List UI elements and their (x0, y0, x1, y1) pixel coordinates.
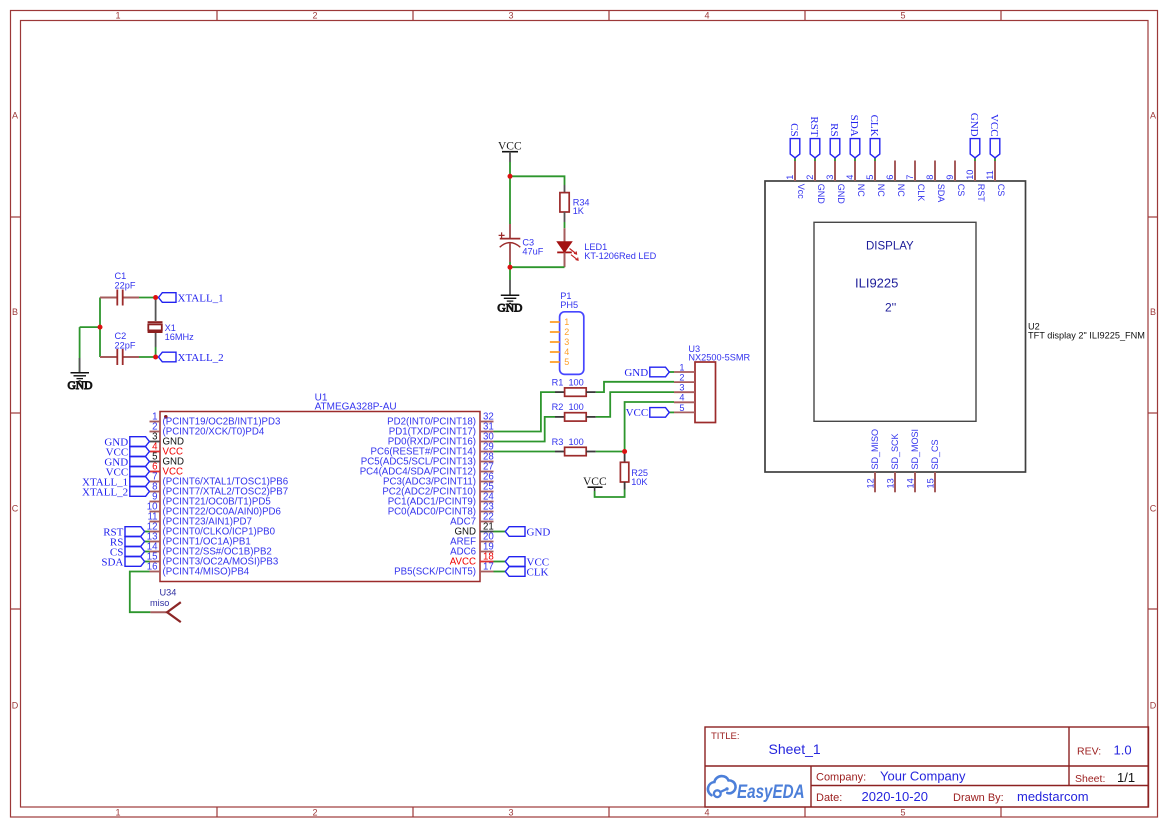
svg-text:VCC: VCC (498, 141, 522, 153)
wire C2 to xtall2 node (139, 356, 156, 358)
wire junction to U3 pin4 (625, 402, 674, 452)
net flag CLK (U1 pin 17) (494, 566, 549, 578)
svg-text:CS: CS (788, 123, 800, 136)
svg-text:4: 4 (564, 347, 569, 357)
svg-text:SDA: SDA (848, 115, 860, 137)
svg-text:2: 2 (805, 175, 815, 180)
pin 3 U2 (825, 161, 846, 205)
pin 1 U2 (785, 161, 806, 200)
svg-text:2020-10-20: 2020-10-20 (862, 789, 929, 804)
svg-text:CLK: CLK (527, 566, 549, 578)
net flag XTALL_1 (U1 pin 7) (82, 476, 149, 488)
EasyEDA logo (708, 776, 805, 802)
net flag VCC (U2 pin 11) (988, 114, 1000, 161)
pin 16 U1 (147, 562, 250, 578)
net flag XTALL_2 (U1 pin 8) (82, 486, 149, 498)
svg-text:R2 100: R2 100 (552, 402, 584, 412)
net flag VCC (U1 pin 18) (494, 556, 550, 568)
pin 8 U1 (150, 482, 289, 498)
svg-text:medstarcom: medstarcom (1017, 789, 1089, 804)
svg-text:NC: NC (896, 184, 906, 197)
svg-text:TFT display 2" ILI9225_FNM: TFT display 2" ILI9225_FNM (1028, 331, 1145, 341)
junction node xtall2 (153, 355, 158, 360)
pin 31 U1 (389, 422, 494, 438)
capacitor C1 (100, 271, 139, 306)
LED LED1 (557, 228, 656, 267)
svg-text:4: 4 (704, 808, 709, 818)
pin 9 U2 (945, 161, 966, 197)
pin 6 U2 (885, 161, 906, 198)
display module U2 outer box (765, 181, 1026, 472)
svg-text:16MHz: 16MHz (165, 332, 195, 342)
pin 7 U2 (905, 161, 926, 202)
pin 11 U1 (147, 512, 251, 528)
svg-text:CLK: CLK (868, 115, 880, 137)
svg-text:GND: GND (497, 303, 522, 315)
svg-text:SD_SCK: SD_SCK (890, 433, 900, 469)
pin 26 U1 (383, 472, 494, 488)
connector U3 NX2500-5SMR (688, 344, 750, 423)
svg-text:A: A (1150, 111, 1156, 121)
ground (crystal) (68, 358, 93, 392)
svg-text:VCC: VCC (583, 476, 607, 488)
pin 32 U1 (387, 412, 494, 428)
svg-text:1/1: 1/1 (1117, 770, 1135, 785)
pin 5 U1 (150, 452, 185, 468)
svg-text:NC: NC (876, 184, 886, 197)
svg-text:Sheet_1: Sheet_1 (769, 741, 821, 757)
svg-text:4: 4 (679, 393, 684, 403)
svg-text:Sheet:: Sheet: (1075, 773, 1105, 785)
pin 19 U1 (450, 542, 494, 558)
svg-text:XTALL_2: XTALL_2 (82, 486, 128, 498)
svg-text:3: 3 (825, 175, 835, 180)
svg-text:7: 7 (905, 175, 915, 180)
pin 23 U1 (388, 502, 494, 518)
resistor R34 (560, 185, 590, 222)
pin 1 U3 (674, 362, 695, 372)
svg-text:VCC: VCC (626, 407, 649, 419)
resistor R3 (552, 437, 596, 456)
pin 14 U2 (906, 429, 921, 492)
pin 11 U2 (985, 161, 1006, 197)
svg-text:Drawn By:: Drawn By: (953, 792, 1004, 804)
junction node (crystal gnd) (98, 325, 103, 330)
svg-text:RS: RS (828, 123, 840, 136)
svg-text:TITLE:: TITLE: (711, 731, 740, 742)
net flag RST (U2 pin 2) (808, 116, 820, 161)
pin 15 U2 (926, 439, 941, 492)
wire C1 to xtall1 node (139, 297, 156, 299)
svg-text:10K: 10K (631, 477, 648, 487)
svg-text:(PCINT4/MISO)PB4: (PCINT4/MISO)PB4 (163, 567, 250, 578)
pin 5 U2 (865, 161, 886, 198)
svg-text:REV:: REV: (1077, 746, 1101, 758)
pin 7 U1 (150, 472, 289, 488)
net flag GND (U3 pin1) (624, 367, 674, 379)
net flag VCC (U1 pin 4) (106, 446, 150, 458)
svg-text:13: 13 (886, 478, 896, 488)
svg-text:22pF: 22pF (115, 280, 136, 290)
svg-text:XTALL_2: XTALL_2 (178, 352, 224, 364)
svg-text:17: 17 (483, 562, 494, 573)
pin 5 U3 (674, 403, 695, 413)
svg-text:4: 4 (704, 11, 709, 21)
title block texts (711, 731, 1135, 804)
svg-text:NC: NC (856, 184, 866, 197)
pin 9 U1 (150, 492, 271, 508)
svg-text:XTALL_1: XTALL_1 (178, 292, 224, 304)
pin 8 U2 (925, 161, 946, 203)
pin 4 U1 (150, 442, 183, 458)
pin 21 U1 (454, 522, 493, 538)
svg-text:8: 8 (925, 175, 935, 180)
svg-text:CS: CS (996, 184, 1006, 197)
svg-text:SD_CS: SD_CS (930, 439, 940, 469)
pin 24 U1 (388, 492, 495, 508)
svg-text:D: D (1150, 701, 1157, 711)
svg-text:1: 1 (115, 808, 120, 818)
svg-text:47uF: 47uF (522, 246, 543, 256)
svg-text:DISPLAY: DISPLAY (866, 241, 914, 253)
wire C3 bottom to gnd node (509, 262, 511, 267)
wire pin31 to R1 (494, 392, 556, 431)
svg-text:B: B (12, 307, 18, 317)
label U2 (1028, 322, 1145, 341)
svg-text:9: 9 (945, 175, 955, 180)
svg-text:22pF: 22pF (115, 340, 136, 350)
resistor R1 (552, 377, 596, 396)
net flag RS (U1 pin 13) (110, 536, 150, 548)
net flag VCC (U3 pin5) (626, 407, 674, 419)
capacitor C2 (100, 331, 139, 365)
power flag VCC (R25) (583, 476, 607, 491)
svg-text:SDA: SDA (936, 184, 946, 203)
pin 2 U1 (150, 422, 265, 438)
pin 6 U1 (150, 462, 183, 478)
pin 22 U1 (450, 512, 494, 528)
svg-text:2: 2 (312, 808, 317, 818)
svg-text:3: 3 (679, 383, 684, 393)
svg-text:Vcc: Vcc (796, 184, 806, 200)
svg-text:Your Company: Your Company (880, 769, 966, 784)
display text (855, 241, 914, 315)
pin 15 U1 (147, 552, 279, 568)
net flag GND (U1 pin 5) (104, 456, 149, 468)
svg-text:PB5(SCK/PCINT5): PB5(SCK/PCINT5) (394, 567, 476, 578)
svg-text:D: D (12, 701, 19, 711)
net flag SDA (U2 pin 4) (848, 115, 860, 161)
op-amp U1 (ATMEGA328P-AU MCU) (160, 393, 480, 582)
wire VCC to R25 bottom (595, 490, 625, 498)
svg-text:NX2500-5SMR: NX2500-5SMR (688, 353, 750, 363)
wire gnd node down (509, 267, 511, 280)
junction node R3/R25 (622, 449, 627, 454)
svg-text:CLK: CLK (916, 184, 926, 202)
wire pin29 to R3 (494, 451, 556, 453)
wire R2 to U3 pin3 (596, 392, 674, 417)
net flag XTALL_2 (159, 352, 224, 364)
wire R3 to junction (596, 451, 625, 453)
svg-text:2'': 2'' (885, 301, 896, 315)
svg-text:C: C (12, 504, 19, 514)
pin 17 U1 (394, 562, 494, 578)
pin 27 U1 (360, 462, 494, 478)
svg-text:1.0: 1.0 (1114, 743, 1132, 758)
wire vcc node down to C3 (509, 176, 511, 224)
pin 25 U1 (382, 482, 493, 498)
pin 4 U2 (845, 161, 866, 198)
pin 3 U3 (674, 383, 695, 393)
svg-text:5: 5 (900, 11, 905, 21)
net flag RS (U2 pin 3) (828, 123, 840, 161)
net flag GND (U1 pin 3) (104, 436, 149, 448)
svg-text:miso: miso (150, 598, 169, 608)
net flag CS (U2 pin 1) (788, 123, 800, 161)
wire R1 to U3 pin2 (596, 382, 674, 392)
net flag VCC (U1 pin 6) (106, 466, 150, 478)
svg-text:GND: GND (68, 380, 93, 392)
svg-text:VCC: VCC (988, 114, 1000, 137)
svg-text:SDA: SDA (101, 556, 123, 568)
svg-text:RST: RST (976, 184, 986, 203)
svg-text:3: 3 (508, 808, 513, 818)
svg-text:PH5: PH5 (560, 300, 578, 310)
svg-text:1: 1 (564, 317, 569, 327)
pin 29 U1 (370, 442, 493, 458)
wire vcc down (509, 162, 511, 176)
pin 10 U2 (965, 161, 986, 203)
svg-text:6: 6 (885, 175, 895, 180)
svg-text:1: 1 (115, 11, 120, 21)
junction node gnd (508, 265, 513, 270)
pin 20 U1 (450, 532, 494, 548)
connector P1 PH5 (550, 291, 584, 374)
svg-text:GND: GND (816, 184, 826, 205)
svg-text:1K: 1K (573, 206, 585, 216)
svg-text:2: 2 (679, 373, 684, 383)
svg-text:GND: GND (968, 113, 980, 137)
svg-text:1: 1 (679, 362, 684, 372)
svg-text:C: C (1150, 504, 1157, 514)
pin 3 U1 (150, 432, 185, 448)
svg-text:R1 100: R1 100 (552, 377, 584, 387)
net flag SDA (U1 pin 15) (101, 556, 149, 568)
svg-text:5: 5 (900, 808, 905, 818)
svg-text:3: 3 (508, 11, 513, 21)
junction node xtall1 (153, 295, 158, 300)
net flag XTALL_1 (159, 292, 224, 304)
svg-text:RST: RST (808, 116, 820, 136)
wire pin16 to miso (130, 572, 151, 613)
pin 28 U1 (361, 452, 494, 468)
svg-text:11: 11 (985, 170, 995, 180)
display screen inner box (814, 222, 976, 421)
svg-text:R3 100: R3 100 (552, 437, 584, 447)
junction node vcc (508, 174, 513, 179)
svg-text:GND: GND (527, 526, 551, 538)
net flag RST (U1 pin 12) (103, 526, 149, 538)
net flag CLK (U2 pin 5) (868, 115, 880, 161)
pin 4 U3 (674, 393, 695, 403)
pin 12 U1 (147, 522, 276, 538)
resistor R2 (552, 402, 596, 421)
svg-text:SD_MOSI: SD_MOSI (910, 429, 920, 470)
pin 13 U2 (886, 433, 901, 492)
pin 13 U1 (147, 532, 251, 548)
svg-text:Company:: Company: (816, 772, 866, 784)
pin 12 U2 (866, 429, 881, 492)
net flag GND (U1 pin 21) (494, 526, 551, 538)
wire pin30 to R2 (494, 417, 556, 442)
svg-text:5: 5 (679, 403, 684, 413)
pin 2 U2 (805, 161, 826, 205)
title block (705, 727, 1149, 807)
svg-text:GND: GND (836, 184, 846, 205)
svg-text:4: 4 (845, 175, 855, 180)
svg-text:2: 2 (564, 327, 569, 337)
test point U34 miso (150, 587, 181, 622)
svg-text:A: A (12, 111, 18, 121)
svg-text:SD_MISO: SD_MISO (870, 429, 880, 470)
pin 18 U1 (450, 552, 494, 568)
svg-text:Date:: Date: (816, 792, 842, 804)
svg-text:U34: U34 (160, 587, 177, 597)
crystal X1 (148, 298, 195, 358)
svg-text:5: 5 (564, 357, 569, 367)
svg-text:ILI9225: ILI9225 (855, 276, 898, 291)
power flag VCC (top) (498, 141, 522, 163)
wire vcc node to R34 branch (510, 176, 565, 185)
svg-text:2: 2 (312, 11, 317, 21)
svg-text:15: 15 (926, 478, 936, 488)
net flag GND (U2 pin 10) (968, 113, 980, 161)
svg-text:B: B (1150, 307, 1156, 317)
svg-text:1: 1 (785, 175, 795, 180)
svg-text:EasyEDA: EasyEDA (737, 780, 805, 802)
capacitor C3 (polarized) (499, 224, 544, 262)
svg-text:KT-1206Red LED: KT-1206Red LED (584, 251, 656, 261)
resistor R25 (620, 452, 648, 490)
svg-text:5: 5 (865, 175, 875, 180)
ground (led circuit) (497, 280, 522, 315)
pin 10 U1 (147, 502, 281, 518)
wire LED bottom across (510, 266, 565, 268)
wire R34 to LED (564, 222, 566, 228)
svg-text:GND: GND (624, 367, 648, 379)
svg-text:3: 3 (564, 337, 569, 347)
pin 2 U3 (674, 373, 695, 383)
svg-text:12: 12 (866, 478, 876, 488)
svg-text:10: 10 (965, 170, 975, 180)
net flag CS (U1 pin 14) (110, 546, 150, 558)
wire crystal left vertical (80, 298, 100, 373)
svg-text:14: 14 (906, 478, 916, 488)
svg-text:CS: CS (956, 184, 966, 197)
pin 1 U1 (150, 412, 281, 428)
pin 14 U1 (147, 542, 272, 558)
pin 30 U1 (388, 432, 495, 448)
